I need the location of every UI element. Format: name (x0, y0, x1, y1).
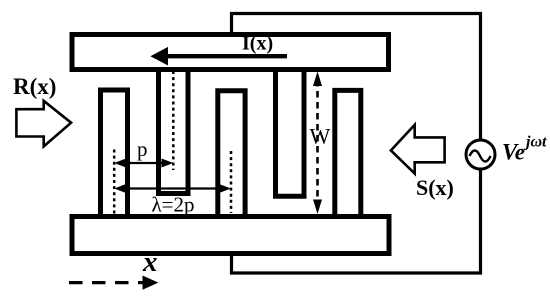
finger 2 (top-attached) (159, 72, 189, 194)
svg-text:p: p (137, 137, 148, 161)
svg-text:I(x): I(x) (242, 33, 273, 55)
svg-text:R(x): R(x) (13, 74, 56, 99)
voltage source circle (466, 140, 495, 169)
top bus bar (72, 35, 389, 70)
dotted centerline finger 2 (172, 71, 175, 170)
wire top: bus bar to source (232, 14, 481, 143)
S(x) input arrow (391, 125, 445, 174)
p pitch arrow (double-head) (114, 159, 173, 168)
I(x) current arrow (150, 47, 287, 66)
svg-text:jωt: jωt (523, 134, 547, 151)
dotted centerline finger 3 (230, 151, 233, 213)
W aperture arrow (dashed double-head) (313, 72, 322, 215)
lambda=2p arrow (double-head) (114, 184, 231, 193)
bottom bus bar (72, 217, 389, 254)
finger 4 (top-attached) (276, 72, 305, 196)
finger 3 (bottom-attached) (218, 91, 245, 214)
sine symbol (470, 151, 491, 162)
svg-text:x: x (142, 246, 158, 278)
finger 5 (bottom-attached) (335, 90, 361, 214)
finger 1 (bottom-attached) (101, 90, 128, 214)
dotted centerline finger 1 (113, 150, 116, 215)
svg-text:Ve: Ve (502, 140, 525, 165)
R(x) input arrow (16, 101, 71, 147)
svg-text:S(x): S(x) (416, 175, 454, 200)
svg-text:λ=2p: λ=2p (152, 193, 195, 217)
wire bottom: bus bar to source (232, 168, 481, 273)
x axis dashed arrow (69, 276, 158, 290)
svg-text:W: W (310, 124, 331, 149)
